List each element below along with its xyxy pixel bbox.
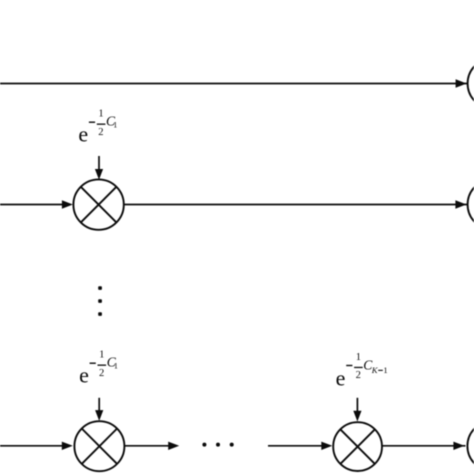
svg-text:1: 1 (98, 108, 103, 119)
svg-text:1: 1 (383, 365, 387, 375)
summing node (clipped) row 2 (468, 180, 474, 230)
svg-text:K: K (371, 365, 379, 375)
multiplier U2 (branch K, first) (74, 421, 124, 471)
vertical ellipsis (98, 286, 102, 316)
svg-text:e: e (79, 363, 89, 388)
svg-text:2: 2 (99, 368, 104, 379)
multiplier U1 (branch 2) (73, 179, 123, 229)
svg-text:1: 1 (356, 352, 361, 363)
wire: branch 1 horizontal line (0, 83, 468, 85)
wire: branch K line from ellipsis (268, 445, 322, 447)
wire: branch K line to ellipsis (124, 445, 169, 447)
svg-text:e: e (78, 122, 88, 147)
arrowhead into summing node row 2 (455, 200, 466, 208)
multiplier U3 (branch K, second) (333, 422, 382, 471)
gain label e^(-1/2 C_{K-1}) for U3 (336, 352, 388, 390)
wire: branch K output line (382, 445, 466, 447)
svg-text:e: e (336, 365, 346, 390)
summing node (clipped) row K (467, 421, 474, 471)
svg-text:1: 1 (113, 121, 117, 130)
svg-text:1: 1 (114, 362, 118, 371)
arrowhead into summing node row K (453, 442, 464, 450)
wire: branch 2 output line (124, 204, 468, 206)
arrow from gain label into U2 (95, 398, 103, 421)
svg-text:2: 2 (356, 370, 361, 381)
summing node (clipped) row 1 (468, 59, 474, 109)
arrow from gain label into U1 (95, 156, 103, 180)
wire: branch 2 input line (0, 204, 63, 206)
arrowhead into multiplier U2 (62, 442, 73, 450)
arrow from gain label into U3 (353, 398, 361, 422)
horizontal ellipsis (branch K) (202, 443, 233, 447)
gain label e^(-1/2 C1) for U2 (79, 349, 118, 387)
arrowhead into multiplier U1 (62, 200, 73, 208)
svg-text:1: 1 (99, 349, 104, 360)
arrowhead into ellipsis (168, 442, 179, 450)
arrowhead into summing node row 1 (456, 79, 467, 87)
arrowhead into multiplier U3 (321, 442, 332, 450)
gain label e^(-1/2 C1) for U1 (78, 108, 117, 146)
svg-text:2: 2 (98, 127, 103, 138)
wire: branch K input line (0, 445, 62, 447)
